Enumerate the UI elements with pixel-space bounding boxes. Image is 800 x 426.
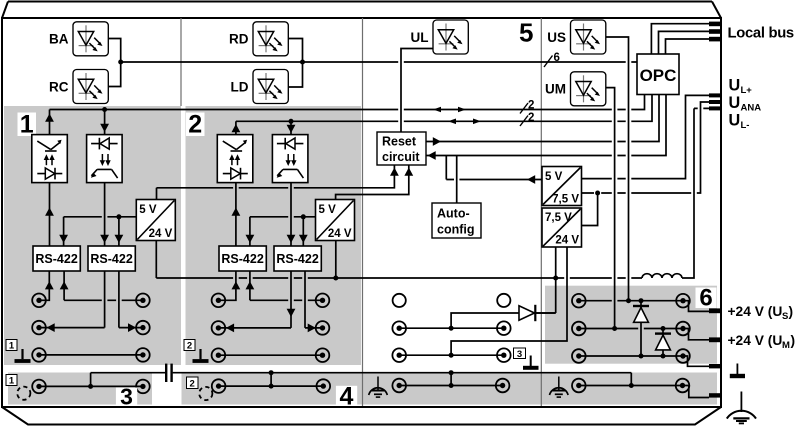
svg-text:Local bus: Local bus (728, 25, 794, 41)
wire bus down to opto B1 (104, 110, 106, 135)
wire RC to junction (108, 62, 120, 87)
wire inductor to UL- (682, 108, 709, 278)
wire shield row region4 (219, 385, 324, 387)
svg-text:7,5 V: 7,5 V (545, 212, 572, 224)
node row2 junction (449, 326, 454, 331)
terminal r6 row2 left (572, 322, 586, 336)
terminal row1 right region2 (316, 294, 330, 308)
inductor filter (642, 274, 682, 278)
wire bus down to right band (630, 373, 632, 386)
LED UL (433, 20, 468, 54)
suppressor diode D1 (640, 301, 642, 356)
node region4 junction (269, 384, 274, 389)
region3: connector label 1 (6, 375, 17, 386)
wire 5V down to RS-422 right (118, 217, 120, 246)
optocoupler B2 (272, 135, 308, 183)
svg-text:): ) (789, 304, 794, 319)
LED US (571, 20, 606, 54)
svg-text:U: U (729, 112, 741, 130)
region label 4 (336, 386, 357, 405)
region3: keying circle dashed (17, 387, 30, 400)
terminal row3 right mid (497, 348, 511, 362)
bus2 slash 2 (520, 116, 528, 127)
terminal right band right (676, 379, 690, 393)
RS-422 driver 4 (274, 246, 321, 271)
ground symbol right (736, 364, 738, 375)
terminal row2 left region2 (212, 321, 226, 335)
node right band junction (629, 383, 634, 388)
wire shield row mid (399, 385, 502, 387)
panel divider lines (181, 18, 541, 406)
terminal row3 left (32, 348, 46, 362)
bus2 double arrow (448, 119, 456, 125)
wire converter1 output to reset (157, 165, 395, 200)
svg-text:RD: RD (229, 32, 249, 47)
wire RS-422-2 to terminal row2 left (39, 271, 105, 328)
wire RS-422-1 to terminal row1 left (39, 271, 49, 300)
wire LD to junction (288, 62, 302, 87)
svg-text:6: 6 (699, 285, 712, 312)
svg-text:6: 6 (554, 52, 560, 64)
node region4 bus junction (269, 370, 274, 375)
node BA/RC junction (118, 60, 123, 65)
wire RS-422-4 to terminal row2 left (218, 271, 291, 328)
terminal region4 right (317, 379, 331, 393)
svg-text:24 V: 24 V (555, 235, 579, 247)
svg-text:2: 2 (187, 341, 192, 352)
svg-text:2: 2 (528, 100, 534, 112)
diode reverse protection (519, 306, 535, 320)
tab earth (709, 393, 721, 397)
LED RC (73, 70, 108, 104)
wire 5V supply region1 (64, 216, 137, 218)
bus1 double arrow (433, 107, 441, 113)
wire row3 to GND tab (683, 356, 709, 366)
wire converter2 24V input (335, 241, 337, 279)
svg-text:2: 2 (188, 111, 202, 139)
svg-text:+24 V (U: +24 V (U (728, 333, 783, 348)
wire ground bus (y372.7) (91, 372, 632, 374)
ground symbol region2 (199, 349, 201, 359)
tab UL+ (709, 93, 721, 97)
wire auto-config to 5V net (456, 156, 458, 204)
svg-text:circuit: circuit (382, 150, 420, 164)
svg-text:config: config (437, 223, 475, 237)
wire reset to OPC (y141.5) (426, 95, 659, 142)
RS-422 driver 1 (33, 246, 80, 271)
Auto-config box (432, 203, 481, 238)
wire region4 up to bus (270, 373, 272, 386)
empty circle row1 right (497, 294, 510, 307)
svg-text:UL: UL (411, 30, 429, 45)
bus width slash 6 (544, 56, 553, 68)
wire 5V net drop to PSU (y179.5) (446, 156, 542, 180)
svg-text:M: M (782, 340, 790, 351)
ground symbol mid (530, 356, 532, 367)
svg-text:US: US (547, 30, 566, 45)
node mid bus junction (449, 370, 454, 375)
terminal row3 right region2 (316, 348, 330, 362)
terminal row2 right mid (497, 321, 511, 335)
svg-text:1: 1 (9, 341, 15, 352)
wire GND row3 region6 (579, 355, 683, 357)
gray region 3 band (8, 373, 152, 405)
svg-text:Reset: Reset (382, 135, 417, 149)
wire opto B1 to RS-422 (104, 183, 106, 246)
wire RS-422-3 to terminal row1 left (218, 271, 236, 300)
PSU A 5V/7.5V (542, 167, 582, 206)
terminal row3 left mid (392, 348, 406, 362)
wire 7.5V loop to PSU-B (582, 193, 598, 226)
node UM feed (612, 326, 617, 331)
wire GND row3 mid (399, 354, 504, 356)
wire +24V US row1 (579, 300, 683, 302)
wire converter2 output to reset (336, 165, 409, 200)
gray region 1 background (4, 106, 181, 365)
LED BA (73, 22, 108, 56)
svg-text:BA: BA (49, 32, 69, 47)
node 5V wire junction (116, 214, 121, 219)
wire diode to 24V rail (536, 312, 556, 314)
svg-text:RC: RC (49, 80, 69, 95)
terminal r6 row2 right (676, 322, 690, 336)
ground symbol region1 (21, 349, 23, 359)
wire UL to reset circuit (401, 49, 433, 133)
gray region 6 background (545, 286, 717, 364)
capacitor coupling (165, 364, 167, 382)
terminal region3 left (32, 380, 46, 394)
wire PSU-A 7.5V output to UANA (582, 102, 710, 193)
wire bus down to opto B2 (290, 121, 292, 134)
svg-text:4: 4 (340, 383, 354, 411)
wire OPC to local bus pin 2 (659, 31, 710, 54)
svg-text:OPC: OPC (640, 66, 677, 85)
svg-text:1: 1 (9, 376, 15, 387)
terminal region4 left (212, 379, 226, 393)
terminal row2 left mid (392, 321, 406, 335)
wire 24V input row2 (399, 327, 504, 329)
terminal r6 row1 left (572, 294, 586, 308)
node D1 bottom (639, 354, 644, 359)
wire 5V down to RS-422 left (63, 217, 65, 246)
node RD/LD junction (300, 60, 305, 65)
wire opto A1 up to bus (49, 110, 51, 135)
DC converter 5V/24V region1 (136, 200, 175, 241)
wire 5V net to reset and OPC (y155.5) (426, 95, 666, 156)
svg-text:S: S (782, 311, 788, 322)
svg-text:L+: L+ (741, 85, 753, 96)
tab UANA (709, 100, 721, 104)
wire opto B2 to RS-422 (290, 183, 292, 246)
gray region 2 background (186, 106, 362, 365)
svg-text:7,5 V: 7,5 V (552, 194, 579, 206)
bus1 slash 2 (520, 103, 528, 114)
suppressor diode D2 (662, 329, 664, 357)
local bus tab 2 (709, 29, 721, 34)
wire diagnostics bus to OPC (121, 61, 637, 63)
wire RS-422-1 to terminal row1 right (64, 271, 143, 300)
terminal r6 row3 left (572, 349, 586, 363)
optocoupler A1 (32, 135, 68, 183)
wire +24V UM row2 (579, 328, 683, 330)
terminal row3 left region2 (212, 348, 226, 362)
node row3 junction (449, 353, 454, 358)
svg-text:3: 3 (120, 383, 133, 409)
DC converter 5V/24V region2 (316, 200, 355, 241)
LED UM (571, 72, 606, 106)
optocoupler A2 (217, 135, 253, 183)
connector label 3 (514, 348, 526, 359)
earth symbol outside (740, 392, 742, 413)
wire right band to earth tab (683, 386, 710, 398)
wire RS-422-3 to terminal row1 right (250, 271, 323, 300)
terminal mid band right (496, 379, 510, 393)
gray region 4 + right bottom band (182, 373, 718, 405)
RS-422 driver 2 (88, 246, 135, 271)
svg-text:3: 3 (517, 349, 522, 360)
terminal r6 row3 right (676, 349, 690, 363)
node D2 bottom (661, 354, 666, 359)
node mid band junction (449, 383, 454, 388)
region label 3 (116, 388, 137, 405)
svg-text:U: U (729, 77, 741, 95)
svg-text:L-: L- (741, 120, 750, 131)
LED RD (253, 22, 288, 56)
tab +24V UM (709, 337, 721, 342)
terminal row2 right region2 (316, 321, 330, 335)
region4: connector label 2 (187, 377, 199, 389)
wire row2 to protection diode (451, 313, 519, 328)
region label 2 (186, 113, 205, 137)
node 7.5V junction (595, 191, 600, 196)
wire PSU-A 5V output to UL+ (582, 95, 710, 178)
node bus1 junction (102, 107, 107, 112)
wire shield row region3 (39, 385, 143, 387)
wire 5V supply region2 (250, 216, 316, 218)
local bus tab 1 (709, 22, 721, 27)
wire RS-485 bus region1 (y109.5) (50, 95, 645, 110)
wire 5V down to RS-422-4 (302, 217, 304, 246)
svg-text:5 V: 5 V (545, 171, 563, 183)
svg-text:2: 2 (190, 379, 195, 390)
svg-text:UM: UM (545, 82, 566, 97)
node 24V junction (553, 276, 558, 281)
terminal row2 left (32, 321, 46, 335)
wire 24V rail across regions (156, 241, 642, 279)
empty circle row1 left (393, 294, 406, 307)
node bus2 junction (289, 119, 294, 124)
node suppressor D2 top (661, 326, 666, 331)
terminal row2 right (136, 321, 150, 335)
LED LD (253, 70, 288, 104)
wire BA to junction (108, 39, 120, 63)
terminal r6 row1 right (676, 294, 690, 308)
region label 1 (18, 113, 37, 137)
svg-text:2: 2 (528, 112, 534, 124)
wire RS-422-4 to terminal row2 right (305, 271, 323, 328)
terminal row1 left (32, 294, 46, 308)
svg-text:): ) (791, 333, 796, 348)
svg-text:5: 5 (519, 18, 533, 48)
wire RD to junction (288, 39, 302, 63)
svg-text:ANA: ANA (741, 103, 762, 114)
tab +24V US (709, 308, 721, 313)
wire OPC to local bus pin 3 (666, 39, 710, 54)
wire shield row3 region2 (218, 354, 322, 356)
terminal row1 right (136, 294, 150, 308)
region label 6 (696, 288, 717, 309)
terminal mid band left (392, 379, 406, 393)
node suppressor D1 top (639, 298, 644, 303)
wire PSU-B 24V output (536, 247, 556, 313)
svg-text:+24 V (U: +24 V (U (728, 304, 783, 319)
op-amp OPC box (637, 54, 679, 95)
Reset circuit box (377, 132, 426, 165)
wire row2 to +24V UM tab (683, 329, 709, 340)
optocoupler B1 (87, 135, 123, 183)
wire mid band up to bus (450, 373, 452, 386)
local bus tab 3 (709, 37, 721, 42)
earth symbol mid band (369, 377, 388, 398)
node 5V wire junction region2 (301, 214, 306, 219)
terminal right band left (572, 379, 586, 393)
wire UM down (606, 88, 615, 329)
connector label 2 row3 (184, 340, 195, 351)
wire opto A1 to RS-422 (49, 183, 51, 246)
PSU B 7.5V/24V (542, 208, 582, 247)
svg-text:U: U (729, 94, 741, 112)
wire RS-485 bus region2 (y121.3) (236, 95, 652, 122)
RS-422 driver 3 (219, 246, 266, 271)
wire US down (606, 37, 629, 301)
wire 5V down to RS-422-3 (249, 217, 251, 246)
wire row1 to +24V US tab (683, 301, 709, 312)
earth symbol right band (550, 377, 569, 398)
wire shield row right (579, 385, 683, 387)
terminal region3 right (136, 380, 150, 394)
wire RS-422-2 to terminal row2 right (119, 271, 143, 328)
svg-text:LD: LD (231, 80, 249, 95)
terminal row3 right (136, 348, 150, 362)
wire region3 up to bus (90, 373, 92, 387)
svg-text:Auto-: Auto- (437, 207, 470, 221)
node region3 junction (88, 384, 93, 389)
terminal row1 left region2 (212, 294, 226, 308)
wire row3 to PSU ground (451, 247, 567, 356)
tab GND (709, 364, 721, 368)
node US feed (626, 298, 631, 303)
wire opto A2 up to bus (235, 121, 237, 134)
connector label 1 row3 (6, 340, 17, 351)
region4: keying circle dashed (199, 387, 212, 400)
wire OPC to local bus pin 1 (651, 24, 709, 54)
node converter2 24V junction (333, 276, 338, 281)
wire opto A2 to RS-422 (235, 183, 237, 246)
wire shield row3 region1 (39, 354, 143, 356)
tab UL- (709, 106, 721, 110)
